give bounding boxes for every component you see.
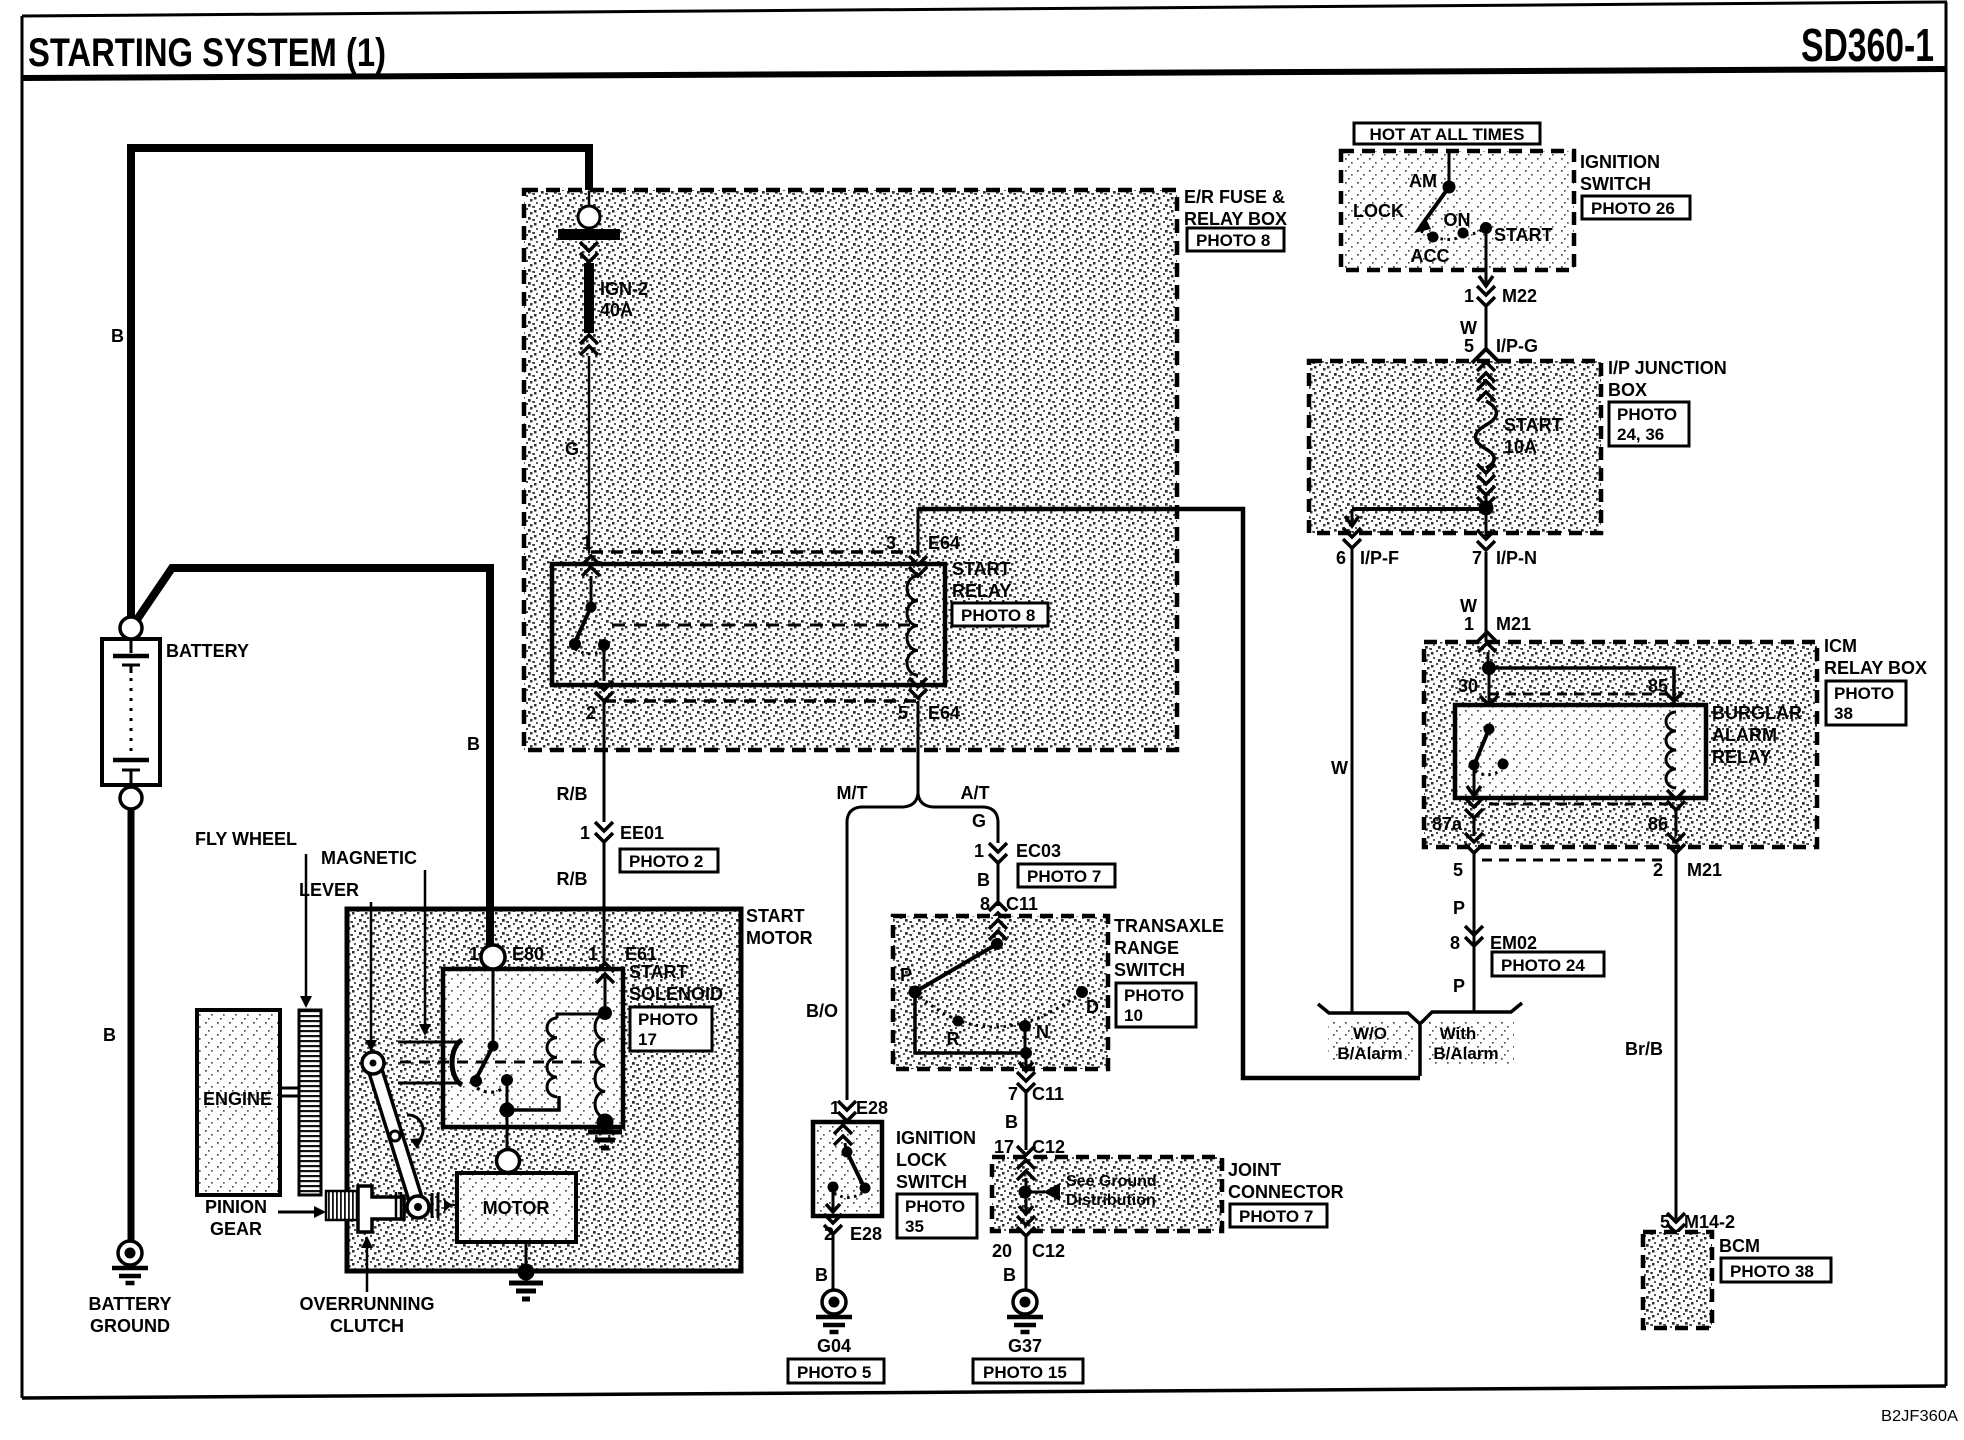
svg-text:R/B: R/B xyxy=(557,869,588,889)
svg-text:RELAY: RELAY xyxy=(1712,747,1771,767)
svg-text:8: 8 xyxy=(1450,933,1460,953)
svg-text:3: 3 xyxy=(886,533,896,553)
svg-text:Br/B: Br/B xyxy=(1625,1039,1663,1059)
svg-text:35: 35 xyxy=(905,1217,924,1236)
svg-text:START: START xyxy=(952,559,1011,579)
svg-text:IGN-2: IGN-2 xyxy=(600,279,648,299)
svg-text:87a: 87a xyxy=(1432,814,1463,834)
svg-text:38: 38 xyxy=(1834,704,1853,723)
svg-text:24, 36: 24, 36 xyxy=(1617,425,1664,444)
svg-text:RELAY BOX: RELAY BOX xyxy=(1184,209,1287,229)
svg-text:W: W xyxy=(1331,758,1348,778)
svg-text:ACC: ACC xyxy=(1411,246,1450,266)
svg-text:With: With xyxy=(1440,1024,1477,1043)
svg-text:I/P-G: I/P-G xyxy=(1496,336,1538,356)
svg-text:PHOTO: PHOTO xyxy=(1617,405,1677,424)
svg-text:B: B xyxy=(1005,1112,1018,1132)
svg-text:1: 1 xyxy=(469,944,479,964)
svg-text:BOX: BOX xyxy=(1608,380,1647,400)
svg-text:FLY WHEEL: FLY WHEEL xyxy=(195,829,297,849)
svg-text:W/O: W/O xyxy=(1353,1024,1387,1043)
svg-text:ON: ON xyxy=(1444,210,1471,230)
svg-text:6: 6 xyxy=(1336,548,1346,568)
svg-text:START: START xyxy=(1504,415,1563,435)
svg-text:P: P xyxy=(900,965,912,985)
svg-text:B/O: B/O xyxy=(806,1001,838,1021)
svg-text:B2JF360A: B2JF360A xyxy=(1881,1408,1958,1425)
svg-text:8: 8 xyxy=(980,894,990,914)
svg-text:I/P JUNCTION: I/P JUNCTION xyxy=(1608,358,1727,378)
svg-text:1: 1 xyxy=(588,944,598,964)
svg-text:PHOTO: PHOTO xyxy=(1124,986,1184,1005)
svg-text:PHOTO 2: PHOTO 2 xyxy=(629,852,703,871)
svg-text:P: P xyxy=(1453,898,1465,918)
svg-text:17: 17 xyxy=(994,1137,1014,1157)
svg-text:10: 10 xyxy=(1124,1006,1143,1025)
svg-text:GEAR: GEAR xyxy=(210,1219,262,1239)
svg-text:PHOTO 8: PHOTO 8 xyxy=(961,606,1035,625)
svg-text:C12: C12 xyxy=(1032,1137,1065,1157)
svg-text:5: 5 xyxy=(1464,336,1474,356)
svg-text:BATTERY: BATTERY xyxy=(89,1294,172,1314)
svg-text:17: 17 xyxy=(638,1030,657,1049)
svg-text:1: 1 xyxy=(974,841,984,861)
svg-text:Distribution: Distribution xyxy=(1066,1192,1156,1209)
svg-text:7: 7 xyxy=(1008,1084,1018,1104)
svg-text:IGNITION: IGNITION xyxy=(896,1128,976,1148)
svg-text:LEVER: LEVER xyxy=(299,880,359,900)
svg-text:PHOTO 7: PHOTO 7 xyxy=(1027,867,1101,886)
svg-text:PHOTO 38: PHOTO 38 xyxy=(1730,1262,1814,1281)
svg-text:LOCK: LOCK xyxy=(1353,201,1404,221)
svg-text:I/P-F: I/P-F xyxy=(1360,548,1399,568)
svg-text:RANGE: RANGE xyxy=(1114,938,1179,958)
svg-text:PHOTO 5: PHOTO 5 xyxy=(797,1363,871,1382)
svg-text:ENGINE: ENGINE xyxy=(203,1089,272,1109)
svg-text:SD360-1: SD360-1 xyxy=(1801,19,1934,71)
svg-text:5: 5 xyxy=(1660,1212,1670,1232)
svg-text:R/B: R/B xyxy=(557,784,588,804)
svg-text:1: 1 xyxy=(582,533,592,553)
svg-text:ICM: ICM xyxy=(1824,636,1857,656)
svg-text:EC03: EC03 xyxy=(1016,841,1061,861)
svg-text:E28: E28 xyxy=(850,1224,882,1244)
svg-text:2: 2 xyxy=(586,703,596,723)
svg-text:E/R FUSE &: E/R FUSE & xyxy=(1184,187,1285,207)
svg-text:D: D xyxy=(1086,997,1099,1017)
svg-text:BURGLAR: BURGLAR xyxy=(1712,703,1802,723)
svg-text:OVERRUNNING: OVERRUNNING xyxy=(299,1294,434,1314)
svg-text:I/P-N: I/P-N xyxy=(1496,548,1537,568)
svg-text:START: START xyxy=(629,962,688,982)
svg-text:START: START xyxy=(1494,225,1553,245)
svg-text:IGNITION: IGNITION xyxy=(1580,152,1660,172)
svg-text:E28: E28 xyxy=(856,1098,888,1118)
svg-text:PHOTO: PHOTO xyxy=(1834,684,1894,703)
svg-text:EE01: EE01 xyxy=(620,823,664,843)
svg-text:W: W xyxy=(1460,596,1477,616)
svg-text:JOINT: JOINT xyxy=(1228,1160,1281,1180)
svg-text:10A: 10A xyxy=(1504,437,1537,457)
svg-text:SOLENOID: SOLENOID xyxy=(629,984,723,1004)
svg-text:P: P xyxy=(1453,976,1465,996)
svg-text:PHOTO: PHOTO xyxy=(905,1197,965,1216)
svg-text:See Ground: See Ground xyxy=(1066,1173,1157,1190)
svg-text:M/T: M/T xyxy=(837,783,868,803)
svg-text:M21: M21 xyxy=(1687,860,1722,880)
svg-text:B: B xyxy=(467,734,480,754)
svg-text:B/Alarm: B/Alarm xyxy=(1433,1044,1498,1063)
svg-text:BATTERY: BATTERY xyxy=(166,641,249,661)
svg-text:5: 5 xyxy=(1453,860,1463,880)
svg-text:HOT AT ALL TIMES: HOT AT ALL TIMES xyxy=(1370,125,1525,144)
svg-text:1: 1 xyxy=(1464,286,1474,306)
svg-text:7: 7 xyxy=(1472,548,1482,568)
svg-text:START: START xyxy=(746,906,805,926)
svg-text:M14-2: M14-2 xyxy=(1684,1212,1735,1232)
svg-text:C12: C12 xyxy=(1032,1241,1065,1261)
svg-text:20: 20 xyxy=(992,1241,1012,1261)
svg-text:G: G xyxy=(972,811,986,831)
svg-text:MOTOR: MOTOR xyxy=(746,928,813,948)
svg-text:M21: M21 xyxy=(1496,614,1531,634)
svg-text:STARTING SYSTEM (1): STARTING SYSTEM (1) xyxy=(28,31,386,75)
svg-text:TRANSAXLE: TRANSAXLE xyxy=(1114,916,1224,936)
svg-text:G04: G04 xyxy=(817,1336,851,1356)
svg-text:A/T: A/T xyxy=(961,783,990,803)
svg-text:SWITCH: SWITCH xyxy=(896,1172,967,1192)
svg-text:G: G xyxy=(565,439,579,459)
svg-text:5: 5 xyxy=(898,703,908,723)
svg-text:E64: E64 xyxy=(928,533,960,553)
svg-text:SWITCH: SWITCH xyxy=(1580,174,1651,194)
svg-text:ALARM: ALARM xyxy=(1712,725,1777,745)
svg-text:PHOTO 26: PHOTO 26 xyxy=(1591,199,1675,218)
svg-text:LOCK: LOCK xyxy=(896,1150,947,1170)
svg-text:C11: C11 xyxy=(1032,1084,1064,1104)
svg-text:PHOTO: PHOTO xyxy=(638,1010,698,1029)
svg-text:W: W xyxy=(1460,318,1477,338)
svg-text:B: B xyxy=(103,1025,116,1045)
svg-text:PHOTO 8: PHOTO 8 xyxy=(1196,231,1270,250)
svg-text:2: 2 xyxy=(1653,860,1663,880)
svg-text:EM02: EM02 xyxy=(1490,933,1537,953)
svg-text:RELAY BOX: RELAY BOX xyxy=(1824,658,1927,678)
svg-text:PHOTO 24: PHOTO 24 xyxy=(1501,956,1585,975)
svg-text:R: R xyxy=(947,1029,960,1049)
svg-text:B: B xyxy=(815,1265,828,1285)
svg-text:CONNECTOR: CONNECTOR xyxy=(1228,1182,1344,1202)
svg-text:MAGNETIC: MAGNETIC xyxy=(321,848,417,868)
svg-text:B/Alarm: B/Alarm xyxy=(1337,1044,1402,1063)
svg-text:40A: 40A xyxy=(600,300,633,320)
svg-text:B: B xyxy=(1003,1265,1016,1285)
svg-text:MOTOR: MOTOR xyxy=(483,1198,550,1218)
svg-text:1: 1 xyxy=(580,823,590,843)
svg-text:PINION: PINION xyxy=(205,1197,267,1217)
svg-text:RELAY: RELAY xyxy=(952,581,1011,601)
svg-text:G37: G37 xyxy=(1008,1336,1042,1356)
svg-text:E61: E61 xyxy=(625,944,657,964)
svg-text:B: B xyxy=(977,870,990,890)
svg-text:PHOTO 7: PHOTO 7 xyxy=(1239,1207,1313,1226)
svg-text:C11: C11 xyxy=(1006,894,1038,914)
svg-text:M22: M22 xyxy=(1502,286,1537,306)
svg-text:E64: E64 xyxy=(928,703,960,723)
svg-text:30: 30 xyxy=(1458,676,1478,696)
svg-text:SWITCH: SWITCH xyxy=(1114,960,1185,980)
svg-text:1: 1 xyxy=(1464,614,1474,634)
svg-text:N: N xyxy=(1036,1022,1049,1042)
svg-text:AM: AM xyxy=(1409,171,1437,191)
svg-text:E80: E80 xyxy=(512,944,544,964)
svg-text:GROUND: GROUND xyxy=(90,1316,170,1336)
svg-text:86: 86 xyxy=(1648,814,1668,834)
svg-text:CLUTCH: CLUTCH xyxy=(330,1316,404,1336)
svg-text:B: B xyxy=(111,326,124,346)
svg-text:BCM: BCM xyxy=(1719,1236,1760,1256)
svg-text:PHOTO 15: PHOTO 15 xyxy=(983,1363,1067,1382)
